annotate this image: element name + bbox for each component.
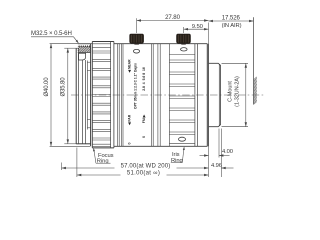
svg-text:51.00(at ∞): 51.00(at ∞): [127, 170, 160, 176]
barrel top/bottom edges: [114, 43, 207, 45]
svg-text:(1-32UN-2A): (1-32UN-2A): [235, 76, 241, 107]
focus lock screw hole (oval): [133, 49, 139, 53]
dia 40 dim line: [50, 44, 52, 147]
ext line flange (long): [208, 23, 210, 178]
front step lines: [87, 61, 90, 63]
front inner verticals: [81, 60, 83, 144]
svg-text:(IN AIR): (IN AIR): [222, 23, 242, 29]
scale ring rear verticals: [151, 44, 153, 147]
smooth section verticals: [117, 44, 119, 147]
label M32.5 leader/underline: [31, 37, 78, 43]
svg-text:27.80: 27.80: [165, 14, 180, 21]
dia 35.8 dim line: [67, 48, 69, 144]
svg-text:0: 0: [142, 136, 146, 138]
svg-text:9.50: 9.50: [192, 24, 204, 30]
focus ring knurl outline: [92, 41, 114, 43]
ext line front face: [76, 148, 78, 178]
dim 4.96 (outside arrow right): [221, 167, 233, 169]
C-mount thread cylinder: [209, 63, 221, 126]
svg-text:◀ FAR: ◀ FAR: [128, 114, 132, 126]
dia 35.8 top extension: [64, 47, 79, 49]
c-mount dia ext bottom: [222, 126, 249, 128]
dim line 51.00: [77, 174, 121, 176]
iris ring groove bands: [168, 44, 170, 147]
focus ring knurl bands: [92, 43, 110, 45]
C-mount rear inner line: [218, 64, 220, 125]
svg-text:Ø40.00: Ø40.00: [44, 77, 50, 97]
dim line 9.50: [184, 28, 209, 30]
image plane line: [253, 17, 255, 104]
c-mount dia dim line: [245, 63, 247, 126]
iris label shelf: [171, 162, 183, 164]
svg-text:57.00(at WD 200): 57.00(at WD 200): [121, 163, 171, 169]
ext line c-mount thread end: [218, 129, 220, 158]
ext line iris knob center: [183, 27, 185, 33]
dim line 17.526: [209, 20, 254, 22]
front bezel box (top, rounded bottom-right): [78, 53, 85, 60]
svg-text:0: 0: [128, 143, 132, 145]
rear ring verticals: [194, 44, 196, 147]
svg-text:FM ▶: FM ▶: [142, 114, 146, 123]
svg-text:OPT 35mm 1:2.3 C 1.1″ Dapix: OPT 35mm 1:2.3 C 1.1″ Dapix: [134, 63, 138, 109]
svg-text:C-Mount: C-Mount: [228, 81, 234, 102]
barrel front edge: [90, 44, 92, 147]
c-mount dia ext top: [222, 62, 249, 64]
dim line 27.80: [137, 20, 209, 22]
iris lock thumbscrew knob: [177, 34, 191, 43]
ext line WD200 front position: [61, 163, 63, 171]
svg-text:17.526: 17.526: [222, 14, 241, 21]
dia 35.8 bottom extension: [64, 143, 79, 145]
barrel top front segment: [76, 43, 92, 45]
dia 40 bottom extension: [50, 145, 90, 147]
svg-text:Ø35.80: Ø35.80: [61, 77, 67, 97]
iris ring leader: [182, 148, 184, 163]
image plane hatch ticks: [254, 77, 257, 80]
focus lock thumbscrew knob: [130, 34, 144, 43]
svg-text:Ring: Ring: [171, 158, 183, 164]
rear face double line: [206, 44, 208, 147]
dia 40 top extension: [50, 43, 76, 45]
svg-text:M32.5 × 0.5-6H: M32.5 × 0.5-6H: [31, 30, 72, 37]
dim 4.00 (outside arrows): [200, 155, 209, 157]
focus label shelf: [96, 162, 111, 164]
svg-text:4.00: 4.00: [222, 149, 233, 155]
iris lock screw hole (oval): [181, 48, 188, 51]
ext line rear tip: [220, 129, 222, 178]
dim line 57.00: [62, 167, 115, 169]
front filter thread block M32.5 (hatched): [78, 43, 91, 45]
svg-text:2.8 4 5.6 8 16: 2.8 4 5.6 8 16: [142, 67, 146, 91]
focus ring leader: [94, 149, 96, 163]
front rim face double line: [75, 48, 77, 144]
svg-text:4.96: 4.96: [211, 163, 222, 169]
svg-text:◀ NEAR: ◀ NEAR: [128, 59, 132, 74]
iris ring bottom screw hole (oval): [179, 137, 186, 141]
svg-text:Ring: Ring: [97, 159, 109, 165]
optical axis centerline: [71, 94, 264, 96]
ext line focus knob center: [136, 18, 138, 33]
front rim bottom edge: [76, 143, 90, 145]
